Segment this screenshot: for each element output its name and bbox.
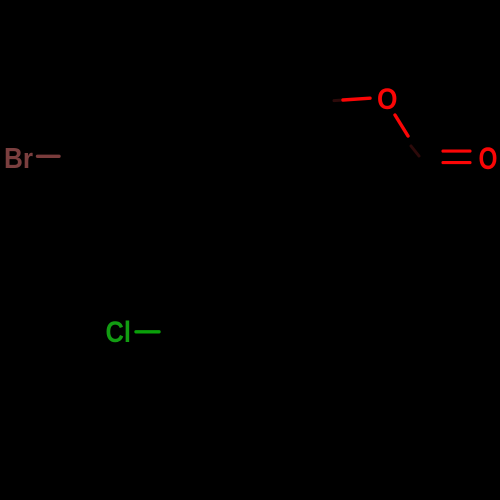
svg-text:O: O xyxy=(377,83,398,116)
double bond C=O2 upper line (red half) xyxy=(443,150,470,153)
bond O1-C carbonyl (faint dark continuation toward carbonyl C) xyxy=(411,146,419,156)
svg-text:Br: Br xyxy=(4,143,33,175)
svg-text:Cl: Cl xyxy=(106,316,132,349)
bond Br-C (visible maroon half) xyxy=(38,155,60,158)
bond C-O1 (faint dark seam at carbon half) xyxy=(334,99,341,103)
bond O1-C carbonyl (visible red half, lower right of O1) xyxy=(395,115,408,136)
bond Cl-C (visible green half) xyxy=(136,330,159,333)
svg-text:O: O xyxy=(479,140,498,176)
bond C-O1 (visible red half, left of O1) xyxy=(343,98,370,100)
double bond C=O2 lower line (red half) xyxy=(443,161,470,164)
